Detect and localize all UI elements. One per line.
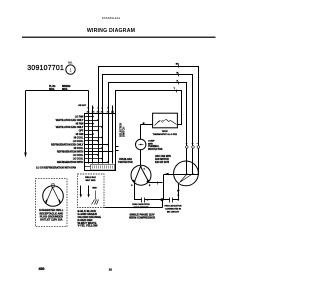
svg-text:PLUG: PLUG bbox=[49, 86, 56, 88]
svg-text:1/20 HP 1075: 1/20 HP 1075 bbox=[155, 162, 170, 164]
svg-text:SWITCH: SWITCH bbox=[122, 127, 126, 137]
svg-text:MTR: MTR bbox=[148, 143, 153, 145]
svg-text:BK: BK bbox=[176, 63, 180, 65]
svg-text:Y-YEL YELLOW: Y-YEL YELLOW bbox=[78, 224, 98, 228]
svg-text:FIELD BLK: FIELD BLK bbox=[85, 177, 96, 179]
svg-text:REFRIGERATION WITH: REFRIGERATION WITH bbox=[57, 161, 84, 164]
svg-text:COMP: COMP bbox=[148, 141, 155, 143]
svg-text:THERMOSTAT & LO FRZ: THERMOSTAT & LO FRZ bbox=[153, 133, 178, 136]
svg-text:FAN CAPACITOR: FAN CAPACITOR bbox=[165, 205, 182, 208]
svg-text:FAS184L2A1: FAS184L2A1 bbox=[102, 16, 121, 20]
svg-text:VENTILATOR EXH ONLY: VENTILATOR EXH ONLY bbox=[56, 119, 84, 122]
svg-text:REFRIGERATION WITH: REFRIGERATION WITH bbox=[57, 150, 84, 153]
svg-text:THERMAL: THERMAL bbox=[148, 145, 160, 148]
svg-text:GRD: GRD bbox=[92, 188, 97, 190]
svg-text:HI FAN: HI FAN bbox=[76, 133, 84, 136]
svg-text:CONNECTED IN: CONNECTED IN bbox=[165, 209, 181, 211]
svg-text:OFF: OFF bbox=[79, 130, 84, 132]
svg-text:450: 450 bbox=[39, 267, 45, 271]
svg-text:LO COOL: LO COOL bbox=[73, 155, 84, 157]
svg-text:309107701: 309107701 bbox=[27, 65, 64, 72]
svg-text:PROTECTOR: PROTECTOR bbox=[148, 149, 163, 151]
svg-text:WIRING DIAGRAM: WIRING DIAGRAM bbox=[87, 28, 135, 34]
svg-text:HI COOL: HI COOL bbox=[74, 137, 84, 139]
svg-text:BK CIRCUIT: BK CIRCUIT bbox=[167, 211, 180, 213]
svg-text:TSTAT: TSTAT bbox=[162, 130, 169, 133]
svg-text:OR HOT: OR HOT bbox=[78, 105, 87, 107]
svg-text:OVERLOAD: OVERLOAD bbox=[119, 158, 132, 161]
svg-text:VENTILATOR EXH ONLY: VENTILATOR EXH ONLY bbox=[56, 126, 84, 129]
svg-text:WIRING: WIRING bbox=[62, 86, 71, 88]
svg-text:10: 10 bbox=[109, 268, 113, 272]
svg-text:PROTECTOR: PROTECTOR bbox=[118, 162, 133, 164]
svg-text:WHT GRD: WHT GRD bbox=[86, 180, 96, 182]
svg-text:OSC FAN MTR: OSC FAN MTR bbox=[155, 155, 171, 158]
svg-text:HERM COMPRESSOR: HERM COMPRESSOR bbox=[129, 216, 155, 219]
svg-text:REFRIGERATION EXH ONLY: REFRIGERATION EXH ONLY bbox=[51, 143, 84, 146]
svg-text:FAN MOTOR: FAN MOTOR bbox=[155, 158, 169, 161]
svg-text:OUTLET 115V 15A: OUTLET 115V 15A bbox=[40, 218, 63, 222]
svg-text:RUN CAPACITOR: RUN CAPACITOR bbox=[132, 203, 150, 206]
svg-text:NO.: NO. bbox=[68, 61, 73, 65]
svg-text:LO CH REFRIGERATION WITH FAN: LO CH REFRIGERATION WITH FAN bbox=[36, 167, 76, 170]
svg-text:W: W bbox=[176, 72, 178, 74]
